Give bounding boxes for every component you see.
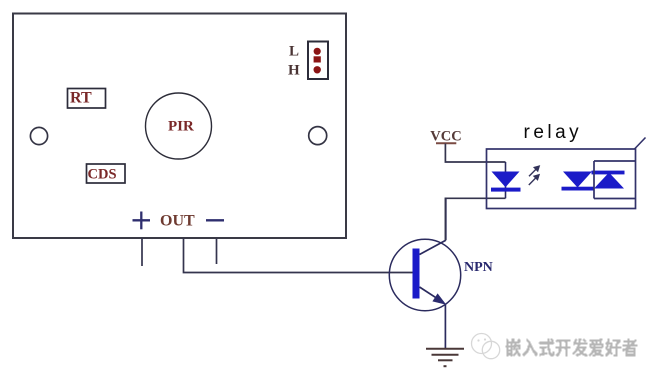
svg-text:RT: RT xyxy=(70,90,92,107)
svg-text:PIR: PIR xyxy=(168,119,194,135)
svg-text:OUT: OUT xyxy=(160,213,195,230)
svg-text:H: H xyxy=(288,63,300,79)
svg-text:L: L xyxy=(289,44,299,60)
svg-text:NPN: NPN xyxy=(464,260,493,275)
svg-text:CDS: CDS xyxy=(88,167,117,183)
svg-text:relay: relay xyxy=(524,122,583,143)
